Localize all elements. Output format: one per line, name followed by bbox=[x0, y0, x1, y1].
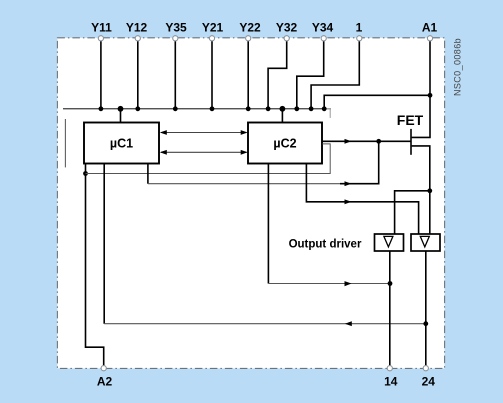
junction A2 line / feedback bbox=[83, 171, 88, 176]
svg-text:Y12: Y12 bbox=[126, 20, 148, 34]
pin circle Y32 bbox=[284, 36, 289, 41]
svg-text:µC2: µC2 bbox=[273, 137, 296, 151]
transistor FET source lead down bbox=[412, 146, 430, 234]
pin circle 24 bbox=[423, 366, 428, 371]
wire bus horizontal bbox=[63, 108, 325, 110]
transistor FET gate bar bbox=[410, 129, 412, 155]
wire uC1-uC2 upper bidirectional link bbox=[160, 130, 248, 135]
wire pin A1 vertical bbox=[429, 41, 431, 95]
junction uC1 stub/bus bbox=[118, 106, 124, 112]
junction uC2 stub/bus bbox=[280, 106, 286, 112]
wire pin Y34 (stepped) bbox=[297, 41, 324, 109]
junction FET source node bbox=[427, 188, 432, 193]
junction Y21/bus bbox=[210, 106, 215, 111]
wire 24-node feedback to uC1 bbox=[103, 164, 105, 324]
pin circle Y34 bbox=[321, 36, 326, 41]
wire thin feedback uC2 to A2 line bbox=[86, 144, 331, 174]
svg-text:NSC0_0086b: NSC0_0086b bbox=[453, 38, 463, 96]
wire A1 to bus (stepped) bbox=[324, 95, 430, 109]
wire bus end (faint) bbox=[325, 108, 332, 110]
pin circle 14 bbox=[387, 366, 392, 371]
svg-text:14: 14 bbox=[384, 375, 398, 389]
svg-text:Y32: Y32 bbox=[276, 20, 298, 34]
wire thin stub below bus end bbox=[329, 109, 331, 118]
arrow on uC2/14 wire bbox=[345, 281, 352, 286]
wire pin Y11 bbox=[100, 41, 102, 109]
svg-text:FET: FET bbox=[397, 112, 424, 128]
svg-text:Y22: Y22 bbox=[239, 20, 261, 34]
wire pin Y35 bbox=[174, 41, 176, 109]
junction pin1/bus bbox=[309, 106, 314, 111]
wire driver2 to pin 24 bbox=[425, 251, 427, 366]
pin circle Y21 bbox=[209, 36, 214, 41]
wire uC1-uC2 lower bidirectional link bbox=[160, 150, 248, 155]
pin circle Y11 bbox=[98, 36, 103, 41]
wire uC2 to 14 node bbox=[267, 164, 269, 284]
wire uC2 to driver 2 bbox=[306, 164, 418, 235]
junction Y35/bus bbox=[173, 106, 178, 111]
output driver buffer 2 bbox=[411, 234, 440, 251]
wire 24-node feedback horizontal (thin) bbox=[104, 323, 426, 325]
wire uC1 pin to A2 (left vertical) bbox=[86, 164, 104, 366]
wire uC2 top stub bbox=[281, 109, 283, 123]
wire uC1 to FET gate node bbox=[147, 164, 149, 184]
svg-text:Output driver: Output driver bbox=[289, 239, 362, 251]
wire pin Y21 bbox=[211, 41, 213, 109]
svg-text:A1: A1 bbox=[422, 20, 438, 34]
wire uC2 to FET gate bbox=[322, 140, 411, 142]
wire pin Y12 bbox=[137, 41, 139, 109]
junction Y12/bus bbox=[135, 106, 140, 111]
pin circle Y22 bbox=[246, 36, 251, 41]
svg-text:Y35: Y35 bbox=[165, 20, 187, 34]
pin circle 1 bbox=[357, 36, 362, 41]
arrow on uC2/driver2 wire bbox=[345, 199, 352, 204]
svg-text:1: 1 bbox=[356, 20, 363, 34]
pin circle Y12 bbox=[135, 36, 140, 41]
junction Y32/bus bbox=[266, 106, 271, 111]
microcontroller U2 (uC2) bbox=[248, 123, 322, 164]
pin circle Y35 bbox=[173, 36, 178, 41]
svg-text:24: 24 bbox=[422, 375, 436, 389]
chip outline (dash-dot border of IC block) bbox=[57, 38, 444, 369]
wire driver1 to pin 14 bbox=[389, 251, 391, 366]
wire source node to driver 1 bbox=[395, 191, 430, 234]
pin circle A1 bbox=[427, 36, 432, 41]
junction A1/FET drain bbox=[428, 93, 433, 98]
svg-text:Y34: Y34 bbox=[312, 20, 334, 34]
junction 14 node bbox=[388, 281, 393, 286]
wire uC1 gate branch horizontal (thin) bbox=[148, 183, 340, 185]
junction Y11/bus bbox=[99, 106, 104, 111]
junction 24 node bbox=[423, 321, 428, 326]
wire pin Y32 (stepped) bbox=[268, 41, 287, 109]
arrow on uC1 gate branch bbox=[345, 181, 352, 186]
svg-text:Y11: Y11 bbox=[91, 20, 112, 34]
wire pin 1 (stepped) bbox=[311, 41, 359, 109]
microcontroller U1 (uC1) bbox=[84, 123, 159, 164]
wire thin stub left of uC1 bbox=[64, 119, 66, 167]
wire uC2 to 14 node horizontal (thin) bbox=[268, 283, 390, 285]
svg-text:µC1: µC1 bbox=[110, 137, 133, 151]
output driver buffer 1 bbox=[375, 234, 404, 251]
junction A1 jog/bus bbox=[322, 106, 327, 111]
transistor FET drain lead to A1 bbox=[412, 95, 430, 137]
svg-text:A2: A2 bbox=[97, 375, 113, 389]
svg-text:Y21: Y21 bbox=[202, 20, 224, 34]
arrow on gate wire bbox=[345, 139, 352, 144]
junction gate wire / uC1 branch bbox=[376, 139, 381, 144]
wire uC1 top stub bbox=[120, 109, 122, 123]
wire uC1 gate branch dark part bbox=[340, 141, 379, 183]
pin circle A2 bbox=[101, 366, 106, 371]
arrow on 24 feedback wire (left) bbox=[345, 321, 352, 326]
wire pin Y22 bbox=[247, 41, 249, 109]
junction Y34/bus bbox=[294, 106, 299, 111]
junction Y22/bus bbox=[246, 106, 251, 111]
